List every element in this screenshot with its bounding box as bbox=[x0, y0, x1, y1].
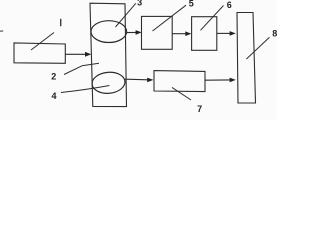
label 1 bbox=[60, 19, 61, 26]
block 1 (input box) bbox=[14, 43, 65, 63]
arrowhead into box5 bbox=[136, 30, 142, 35]
svg-text:8: 8 bbox=[272, 29, 277, 39]
svg-text:5: 5 bbox=[189, 0, 194, 9]
roller ellipse top bbox=[91, 21, 127, 43]
wire box7 to box8 bbox=[205, 79, 230, 81]
svg-text:4: 4 bbox=[51, 91, 56, 101]
wire box6 to box8 bbox=[217, 32, 230, 34]
leader line 6 bbox=[201, 6, 224, 31]
svg-text:6: 6 bbox=[227, 0, 232, 10]
block 2 (tall drum box) bbox=[90, 3, 127, 106]
arrowhead into box8 top bbox=[230, 31, 236, 36]
arrowhead into box6 bbox=[185, 31, 191, 36]
block 7 bbox=[154, 71, 205, 92]
leader line 8 bbox=[246, 37, 269, 59]
leader line 2 bbox=[64, 63, 99, 74]
leader line 7 bbox=[172, 87, 191, 100]
wire drum to box7 bbox=[125, 78, 148, 81]
arrowhead into box8 bottom bbox=[230, 78, 236, 83]
leader line 3 bbox=[116, 3, 136, 27]
svg-text:2: 2 bbox=[51, 72, 56, 82]
block 6 bbox=[192, 17, 217, 51]
wire box5 to box6 bbox=[172, 33, 186, 35]
wire box1 to drum bbox=[65, 53, 85, 55]
arrowhead into drum bbox=[85, 52, 91, 57]
stray mark top-left bbox=[0, 30, 3, 32]
leader line 5 bbox=[153, 5, 187, 31]
svg-text:7: 7 bbox=[197, 104, 202, 114]
block 5 bbox=[142, 16, 173, 49]
svg-text:3: 3 bbox=[137, 0, 142, 8]
roller ellipse bottom bbox=[91, 71, 126, 95]
arrowhead into box7 bbox=[147, 78, 153, 83]
leader line 1 bbox=[31, 33, 54, 51]
block 8 (tall output box) bbox=[237, 13, 256, 104]
wire drum to box5 bbox=[127, 31, 137, 33]
leader line 4 bbox=[61, 86, 109, 93]
